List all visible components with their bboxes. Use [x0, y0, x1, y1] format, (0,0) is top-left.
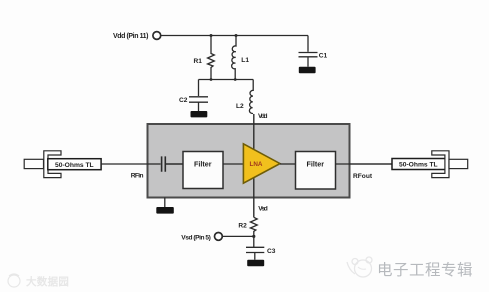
capacitor C2 [189, 97, 208, 111]
svg-text:Vsd (Pin 5): Vsd (Pin 5) [181, 234, 211, 241]
connector bracket right [432, 151, 449, 178]
svg-text:Vdd: Vdd [258, 113, 268, 120]
terminal Vdd (Pin 11) [153, 32, 161, 40]
svg-text:R2: R2 [238, 222, 247, 229]
wire: C2 branch [198, 80, 200, 97]
wire: LNA to filter2 [280, 163, 296, 165]
capacitor C1 [299, 53, 318, 67]
svg-text:C2: C2 [179, 97, 188, 104]
wire: TL left to block [101, 163, 147, 165]
transmission line box right [392, 159, 445, 170]
ground (C1) [299, 67, 316, 73]
svg-text:L2: L2 [236, 103, 244, 110]
svg-text:C3: C3 [267, 248, 276, 255]
resistor R2 [250, 217, 257, 247]
filter block 1 [183, 152, 223, 189]
wire: RFout from block [336, 163, 393, 165]
inductor L1 [232, 36, 236, 80]
svg-text:R1: R1 [194, 58, 203, 65]
svg-text:50-Ohms TL: 50-Ohms TL [399, 162, 438, 169]
svg-text:RFin: RFin [131, 173, 144, 180]
svg-text:RFout: RFout [353, 173, 373, 180]
capacitor Cin (series) [162, 156, 183, 171]
svg-text:电子工程专辑: 电子工程专辑 [377, 261, 473, 279]
junction dot L1 bottom [234, 78, 237, 81]
watermark logo bottom-left [8, 274, 20, 287]
op-amp LNA [243, 144, 280, 183]
svg-text:Filter: Filter [194, 160, 212, 169]
terminal Vsd (Pin 5) [215, 233, 223, 241]
svg-text:Vsd: Vsd [258, 205, 268, 212]
wire: filter1 to LNA [223, 163, 243, 165]
wire: block to TL right [350, 163, 393, 165]
transmission line box left [48, 159, 101, 170]
svg-text:大数据园: 大数据园 [26, 275, 69, 288]
wire: second rail [199, 79, 254, 81]
svg-text:L1: L1 [241, 57, 249, 64]
filter block 2 [296, 152, 336, 190]
svg-text:LNA: LNA [250, 161, 263, 168]
wire: RFin into block [148, 163, 161, 165]
resistor R1 [208, 36, 215, 80]
amplifier block box [148, 124, 350, 198]
wire: top Vdd rail [161, 35, 308, 37]
watermark logo bottom-right [347, 257, 372, 277]
svg-text:C1: C1 [319, 53, 328, 60]
capacitor C3 [246, 247, 264, 259]
junction dot R1 bottom [210, 78, 213, 81]
inductor L2 [249, 80, 253, 115]
junction dot R1 top [210, 34, 213, 37]
connector bracket left [44, 151, 61, 178]
wire: bias line through block [253, 114, 255, 217]
svg-text:Filter: Filter [307, 160, 325, 169]
svg-text:Vdd (Pin 11): Vdd (Pin 11) [113, 33, 149, 40]
connector stub right [449, 159, 468, 168]
ground (C3) [247, 260, 264, 266]
svg-text:50-Ohms TL: 50-Ohms TL [55, 162, 94, 169]
connector stub left [24, 159, 43, 168]
ground (block) [164, 198, 166, 208]
ground (C2) [191, 111, 208, 117]
junction dot L1 top [235, 34, 238, 37]
junction dot pin5 [252, 235, 255, 238]
wire: pin5 to bias line [222, 235, 254, 237]
wire: C1 drop from rail [307, 36, 309, 52]
